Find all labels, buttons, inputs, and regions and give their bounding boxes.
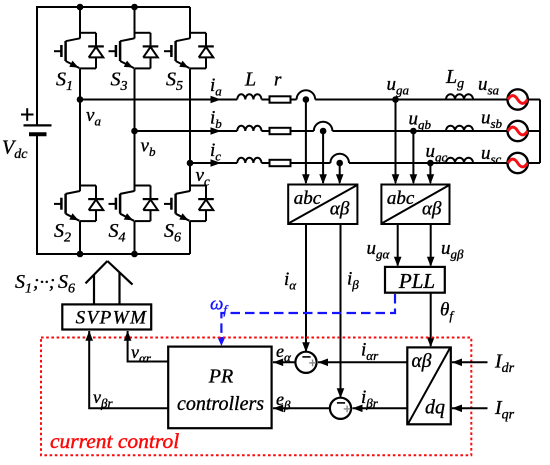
- gate drive arrow SVPWM to switches: [86, 261, 133, 304]
- svg-text:abc: abc: [387, 188, 415, 209]
- label S5: [166, 69, 183, 95]
- DC source Vdc battery plus plate: [24, 124, 52, 126]
- wire grid voltage measurement b: [412, 131, 414, 183]
- label theta-f: [440, 300, 455, 324]
- svg-text:eα: eα: [276, 341, 292, 365]
- wire left DC bus upper: [36, 6, 38, 125]
- wire grid voltage measurement c: [429, 163, 431, 183]
- wire leg b lower: [134, 221, 136, 254]
- wire theta-f: [430, 293, 432, 346]
- wire current measurement b: [322, 131, 324, 183]
- freewheel diode of S4: [143, 199, 159, 210]
- arrow i-alpha into summer: [302, 342, 310, 352]
- svg-text:ugβ: ugβ: [441, 238, 464, 262]
- label e-beta: [276, 389, 291, 413]
- wire neutral bus: [539, 100, 541, 164]
- svg-text:PR: PR: [208, 366, 233, 388]
- node junction top rail at S1 leg: [77, 4, 84, 11]
- wire current measurement a: [305, 100, 307, 184]
- wire source to neutral bus b: [528, 130, 540, 132]
- block PR controllers: [168, 347, 271, 429]
- label S2: [54, 220, 71, 246]
- label ug-beta: [441, 238, 464, 262]
- label S3: [111, 69, 128, 95]
- IGBT S6: [164, 180, 206, 222]
- svg-text:θf: θf: [440, 300, 455, 324]
- wire Iqr: [452, 407, 488, 409]
- AC source usc: [508, 153, 528, 173]
- node vc: [187, 160, 194, 167]
- svg-text:abc: abc: [294, 188, 322, 209]
- wire e-alpha: [273, 361, 295, 363]
- IGBT S3: [109, 7, 151, 68]
- svg-text:dq: dq: [425, 397, 445, 419]
- svg-text:usa: usa: [478, 74, 500, 98]
- label S1: [56, 69, 73, 95]
- wire Lg to source a: [473, 99, 507, 101]
- wire Lg to source b: [473, 130, 507, 132]
- svg-text:iαr: iαr: [361, 340, 379, 364]
- svg-text:S5: S5: [166, 69, 183, 95]
- label L inductor: [244, 69, 256, 91]
- svg-text:Lg: Lg: [445, 66, 464, 92]
- wire Idr: [452, 361, 488, 363]
- arrow current ia: [211, 96, 222, 104]
- arrow current ib: [211, 127, 222, 135]
- arrow into abc block2 b: [410, 174, 418, 184]
- wire source to neutral bus c: [528, 162, 540, 164]
- svg-text:ugc: ugc: [426, 141, 448, 165]
- label ug-alpha: [367, 238, 391, 262]
- label i-beta: [347, 269, 359, 293]
- label i-beta-r: [361, 387, 379, 411]
- label S1..S6 gate signals: [15, 271, 75, 297]
- svg-text:Iqr: Iqr: [494, 397, 515, 423]
- arrow i-alpha-r into summer: [318, 359, 328, 367]
- svg-text:vβr: vβr: [93, 387, 113, 411]
- arrow current ic: [211, 159, 222, 167]
- freewheel diode of S1: [88, 46, 104, 57]
- svg-text:Idr: Idr: [494, 351, 515, 377]
- node ugc: [427, 160, 434, 167]
- wire phase c line: [190, 154, 507, 167]
- svg-text:S2: S2: [54, 220, 71, 246]
- node uga: [392, 96, 399, 103]
- IGBT S4: [109, 180, 151, 222]
- wire i-alpha-r: [318, 361, 407, 363]
- svg-text:;··;: ;··;: [33, 272, 55, 293]
- label usa: [478, 74, 500, 98]
- DC source Vdc battery minus plate: [29, 132, 47, 136]
- svg-text:eβ: eβ: [276, 389, 291, 413]
- arrow e-alpha into PR: [273, 359, 283, 367]
- label Vdc: [2, 137, 28, 163]
- svg-text:iβr: iβr: [361, 387, 379, 411]
- svg-text:iα: iα: [284, 269, 297, 293]
- svg-text:ib: ib: [210, 108, 222, 132]
- svg-text:αβ: αβ: [412, 351, 432, 372]
- AC source usa: [508, 89, 528, 109]
- svg-text:usb: usb: [481, 108, 503, 132]
- svg-text:uga: uga: [387, 74, 410, 98]
- wire leg a lower: [79, 221, 81, 254]
- wire source to neutral bus a: [528, 99, 540, 101]
- label ic: [210, 140, 221, 164]
- label vc: [196, 165, 210, 189]
- block PLL: [385, 267, 445, 293]
- label i-alpha-r: [361, 340, 379, 364]
- current sensor node phase b: [320, 128, 327, 135]
- arrow v-alpha-r into SVPWM: [124, 331, 132, 341]
- label ugc: [426, 141, 448, 165]
- svg-text:current control: current control: [50, 429, 179, 453]
- wire leg c lower: [189, 221, 191, 254]
- arrow i-beta into summer: [337, 388, 345, 398]
- label ib: [210, 108, 222, 132]
- node junction bottom rail at S2 leg: [77, 251, 84, 258]
- node va: [77, 96, 84, 103]
- wire phase leg c: [189, 68, 191, 185]
- label Iqr: [494, 397, 515, 423]
- freewheel diode of S2: [88, 199, 104, 210]
- wire v-beta-r: [89, 331, 168, 408]
- svg-text:S4: S4: [109, 220, 126, 246]
- wire grid voltage measurement a: [395, 100, 397, 184]
- svg-text:SVPWM: SVPWM: [76, 308, 148, 329]
- freewheel diode of S5: [198, 46, 214, 57]
- svg-text:ic: ic: [210, 140, 221, 164]
- current sensor node phase c: [336, 160, 343, 167]
- svg-text:Vdc: Vdc: [2, 137, 28, 163]
- label current control: [50, 429, 179, 453]
- wire phase leg a: [79, 68, 81, 185]
- wire v-alpha-r: [128, 331, 169, 362]
- arrow Iqr into dq block: [452, 405, 462, 413]
- svg-text:PLL: PLL: [398, 269, 435, 293]
- label usb: [481, 108, 503, 132]
- node ugb: [410, 128, 417, 135]
- summing junction alpha: [295, 352, 316, 373]
- freewheel diode of S6: [198, 199, 214, 210]
- transform block abc-to-alphabeta U1: [288, 185, 357, 225]
- current sensor node phase a: [303, 96, 310, 103]
- label omega-f: [210, 294, 229, 318]
- svg-text:αβ: αβ: [330, 199, 350, 220]
- label S4: [109, 220, 126, 246]
- current control boundary box: [41, 338, 471, 456]
- svg-text:iβ: iβ: [347, 269, 359, 293]
- arrow into abc block a: [302, 174, 310, 184]
- AC source usb: [508, 121, 528, 141]
- arrow into abc block2 c: [427, 174, 435, 184]
- svg-text:va: va: [86, 105, 101, 129]
- svg-text:L: L: [244, 69, 256, 91]
- wire ug-beta: [430, 224, 432, 266]
- wire i-beta-r: [353, 407, 408, 409]
- inductor Lg phase c: [446, 158, 473, 163]
- wire bottom DC rail: [37, 253, 190, 255]
- svg-text:vb: vb: [141, 136, 156, 160]
- wire phase a line: [80, 90, 507, 103]
- arrow omega-f into PR: [217, 337, 225, 346]
- svg-text:S1: S1: [15, 271, 32, 297]
- label usc: [481, 143, 502, 167]
- label Lg: [445, 66, 464, 92]
- arrow into abc block c: [336, 174, 344, 184]
- wire ug-alpha: [397, 224, 399, 266]
- svg-text:αβ: αβ: [422, 199, 442, 220]
- wire e-beta: [273, 407, 330, 409]
- wire i-alpha: [305, 224, 307, 351]
- label vb: [141, 136, 156, 160]
- label ugb: [409, 109, 432, 133]
- label e-alpha: [276, 341, 292, 365]
- arrow theta-f into dq block: [427, 337, 435, 347]
- arrow v-beta-r into SVPWM: [85, 331, 93, 341]
- arrow into abc block2 a: [392, 174, 400, 184]
- node junction top rail at S3 leg: [131, 4, 138, 11]
- wire Lg to source c: [473, 162, 507, 164]
- wire left DC bus lower: [36, 134, 38, 255]
- wire top DC rail: [37, 6, 190, 8]
- freewheel diode of S3: [143, 46, 159, 57]
- wire i-beta: [340, 224, 342, 397]
- transform block alphabeta-to-dq U3: [407, 347, 451, 424]
- IGBT S5: [164, 7, 206, 68]
- IGBT S1: [54, 7, 96, 68]
- svg-text:controllers: controllers: [177, 393, 264, 415]
- inductor Lg phase a: [446, 94, 473, 99]
- arrow i-beta-r into summer: [353, 405, 363, 413]
- svg-text:vc: vc: [196, 165, 210, 189]
- node vb: [131, 128, 138, 135]
- label r resistor: [274, 70, 282, 91]
- label i-alpha: [284, 269, 297, 293]
- wire phase leg b: [134, 68, 136, 185]
- svg-text:ia: ia: [210, 75, 222, 99]
- transform block abc-to-alphabeta U2: [381, 185, 449, 225]
- svg-text:S6: S6: [164, 220, 181, 246]
- wire phase b line: [135, 122, 508, 135]
- svg-text:usc: usc: [481, 143, 502, 167]
- svg-text:S6: S6: [58, 271, 75, 297]
- IGBT S2: [54, 180, 96, 222]
- svg-text:ugb: ugb: [409, 109, 432, 133]
- svg-text:r: r: [274, 70, 282, 91]
- label ia: [210, 75, 222, 99]
- svg-text:ugα: ugα: [367, 238, 391, 262]
- wire current measurement c: [339, 163, 341, 183]
- svg-text:S1: S1: [56, 69, 73, 95]
- label + polarity: [21, 108, 34, 121]
- label Idr: [494, 351, 515, 377]
- arrow into abc block b: [319, 174, 327, 184]
- wire omega-f dashed blue: [221, 294, 395, 343]
- label va: [86, 105, 101, 129]
- svg-text:vαr: vαr: [131, 342, 152, 366]
- inductor Lg phase b: [446, 126, 473, 131]
- node junction bottom rail at S4 leg: [131, 251, 138, 258]
- label S6: [164, 220, 181, 246]
- arrow Idr into dq block: [452, 359, 462, 367]
- label v-beta-r: [93, 387, 113, 411]
- arrow ug-beta into PLL: [427, 257, 435, 267]
- summing junction beta: [330, 398, 351, 419]
- svg-text:S3: S3: [111, 69, 128, 95]
- label uga: [387, 74, 410, 98]
- arrow ug-alpha into PLL: [394, 257, 402, 267]
- svg-text:ωf: ωf: [210, 294, 229, 318]
- arrow e-beta into PR: [273, 405, 283, 413]
- label v-alpha-r: [131, 342, 152, 366]
- block SVPWM: [62, 304, 151, 329]
